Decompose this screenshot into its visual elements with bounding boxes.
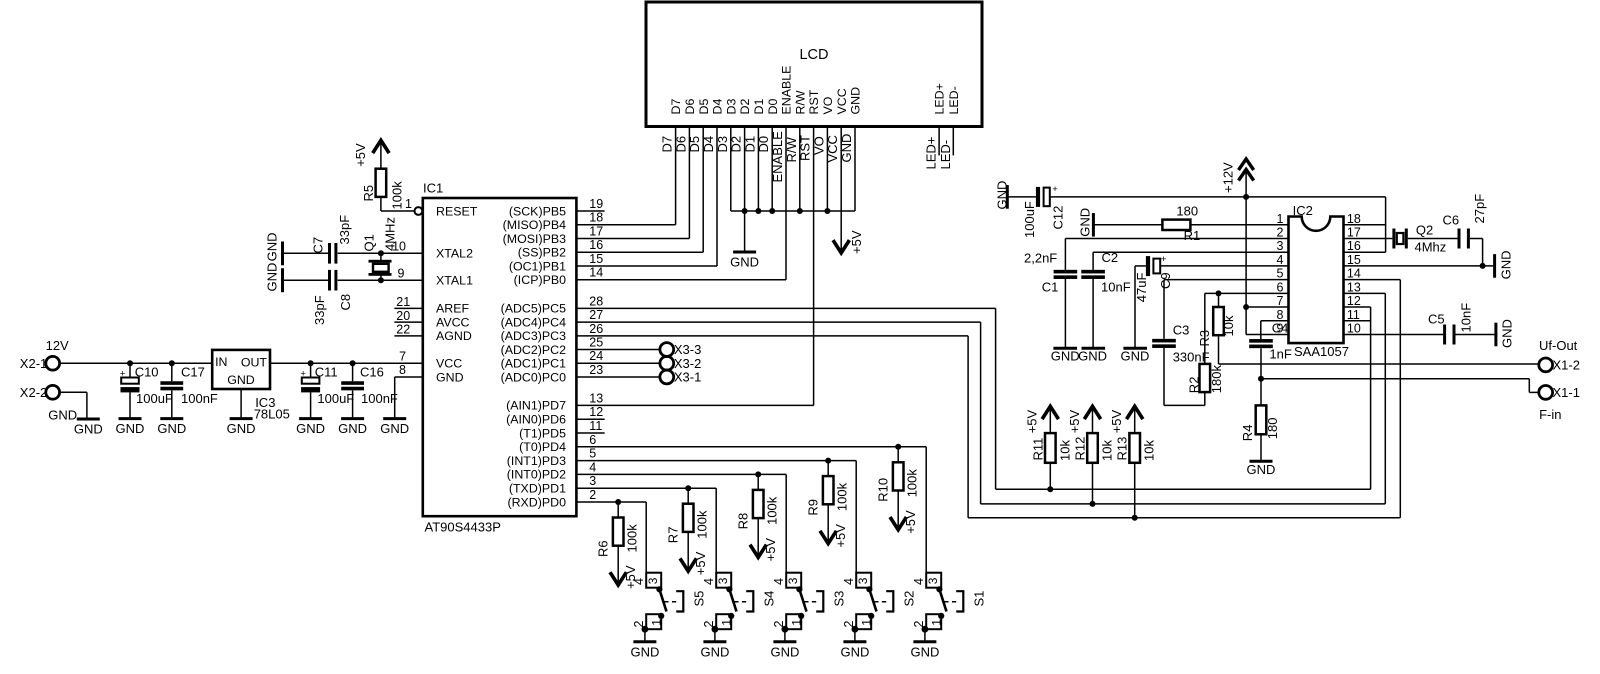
svg-text:1: 1 <box>860 619 874 626</box>
svg-text:6: 6 <box>1276 280 1283 294</box>
svg-text:GND: GND <box>700 644 729 659</box>
svg-text:GND: GND <box>910 644 939 659</box>
svg-text:C5: C5 <box>1428 312 1445 327</box>
svg-text:(ADC1)PC1: (ADC1)PC1 <box>501 357 567 371</box>
svg-text:LED+: LED+ <box>924 137 939 170</box>
svg-text:100uF: 100uF <box>1022 201 1037 238</box>
switch S4 <box>702 488 777 642</box>
svg-text:1: 1 <box>930 619 944 626</box>
svg-text:78L05: 78L05 <box>254 407 290 422</box>
connector X2-2 <box>20 385 60 400</box>
svg-text:R7: R7 <box>666 527 681 544</box>
svg-text:C9: C9 <box>1158 272 1173 289</box>
svg-text:1: 1 <box>1276 212 1283 226</box>
svg-text:R2: R2 <box>1187 377 1202 394</box>
svg-text:+5V: +5V <box>849 230 864 254</box>
wire IC1 pin 26 to IC2 pin 14 <box>576 280 1400 518</box>
svg-text:10k: 10k <box>1221 315 1236 336</box>
junction pin7 +12V <box>1243 304 1249 310</box>
svg-text:R4: R4 <box>1240 425 1255 442</box>
svg-text:(OC1)PB1: (OC1)PB1 <box>509 259 566 273</box>
svg-text:16: 16 <box>1347 239 1361 253</box>
svg-text:12: 12 <box>589 405 603 419</box>
svg-text:R/W: R/W <box>793 90 807 114</box>
svg-text:GND: GND <box>1051 349 1080 364</box>
svg-text:AREF: AREF <box>436 302 469 316</box>
svg-text:GND: GND <box>840 644 869 659</box>
svg-text:3: 3 <box>786 577 800 584</box>
svg-text:12: 12 <box>1347 294 1361 308</box>
svg-text:R6: R6 <box>596 540 611 557</box>
ground GND under bus <box>730 252 759 270</box>
svg-text:33pF: 33pF <box>312 295 327 325</box>
svg-text:GND: GND <box>74 422 103 437</box>
connector X1-2 Uf-Out <box>1539 338 1580 372</box>
svg-text:GND: GND <box>849 87 863 115</box>
svg-text:18: 18 <box>1347 212 1361 226</box>
junction C10-rail <box>127 360 133 366</box>
svg-text:D4: D4 <box>701 136 716 153</box>
wire IC1 pin 2 to switch <box>576 501 646 503</box>
svg-text:24: 24 <box>589 349 603 363</box>
resistor R9 100k pull-up <box>806 461 850 548</box>
resistor R13 10k pull-up <box>1109 406 1157 517</box>
svg-text:33pF: 33pF <box>337 215 352 245</box>
svg-text:11: 11 <box>1347 308 1360 322</box>
svg-text:LED+: LED+ <box>933 83 947 114</box>
svg-text:1: 1 <box>790 619 804 626</box>
svg-text:AGND: AGND <box>436 329 472 343</box>
junction R3 on pin 6 line <box>1216 290 1222 296</box>
ground C1 <box>1051 348 1080 363</box>
capacitor C17 100nF <box>160 363 218 418</box>
svg-text:Q1: Q1 <box>362 234 377 251</box>
svg-text:4Mhz: 4Mhz <box>1415 239 1447 254</box>
svg-text:S5: S5 <box>692 591 707 607</box>
svg-text:4: 4 <box>632 578 646 585</box>
wire IC1 pin 5 to switch <box>576 460 856 462</box>
svg-text:2,2nF: 2,2nF <box>1024 251 1057 266</box>
svg-text:5: 5 <box>589 447 596 461</box>
svg-text:RESET: RESET <box>436 204 478 218</box>
capacitor C8 33pF <box>283 270 354 325</box>
svg-text:+5V: +5V <box>1067 409 1082 433</box>
ground C17 <box>157 419 186 437</box>
svg-text:D1: D1 <box>742 136 757 153</box>
svg-text:VO: VO <box>821 96 835 114</box>
wire IC1 pin 23 to X3-1 <box>576 376 660 378</box>
wire D6 to IC1 pin 17 <box>576 127 689 239</box>
svg-text:S2: S2 <box>902 591 917 607</box>
svg-text:10k: 10k <box>1057 440 1072 461</box>
svg-text:C4: C4 <box>1272 320 1289 335</box>
pin 11 stub <box>576 432 604 434</box>
svg-text:R10: R10 <box>876 478 891 502</box>
svg-text:3: 3 <box>1276 239 1283 253</box>
svg-text:(INT0)PD2: (INT0)PD2 <box>507 468 566 482</box>
capacitor C12 100uF <box>1007 184 1065 238</box>
ground C10 <box>116 419 145 437</box>
svg-text:(T0)PD4: (T0)PD4 <box>519 440 566 454</box>
svg-text:13: 13 <box>1347 280 1361 294</box>
IC2 pin 11 stub <box>1344 320 1372 322</box>
capacitor C1 2.2nF on IC2 pin 2 <box>1024 239 1289 349</box>
svg-text:21: 21 <box>396 295 410 309</box>
svg-text:15: 15 <box>589 252 603 266</box>
svg-text:Q2: Q2 <box>1416 223 1433 238</box>
svg-text:+: + <box>300 368 306 379</box>
svg-text:C12: C12 <box>1050 206 1065 230</box>
svg-text:28: 28 <box>589 294 603 308</box>
junction D0-bus <box>769 208 775 214</box>
svg-text:D3: D3 <box>724 99 738 115</box>
svg-text:(AIN1)PD7: (AIN1)PD7 <box>506 399 566 413</box>
ground R1 (sideways) <box>1078 208 1094 237</box>
svg-text:+5V: +5V <box>693 551 708 575</box>
regulator IC3 78L05 <box>212 350 290 422</box>
switch S1 <box>912 447 987 642</box>
svg-text:+5V: +5V <box>1109 409 1124 433</box>
junction R7 <box>685 485 691 491</box>
power +5V at LCD VCC <box>833 230 864 254</box>
svg-text:IC2: IC2 <box>1293 203 1313 218</box>
resistor R1 180 on IC2 pin 1 <box>1093 203 1288 243</box>
junction R12 <box>1090 501 1096 507</box>
svg-text:100k: 100k <box>695 510 710 539</box>
svg-text:GND: GND <box>1498 251 1513 280</box>
wire X2-2 to ground <box>48 392 87 422</box>
svg-text:OUT: OUT <box>241 355 268 369</box>
junction XTAL1 <box>378 277 384 283</box>
svg-text:D5: D5 <box>697 99 711 115</box>
resistor R2 180k <box>1187 293 1289 405</box>
wire IC1 pin 4 to switch <box>576 473 786 475</box>
svg-text:R11: R11 <box>1030 438 1045 461</box>
ground IC3 <box>227 419 256 437</box>
svg-text:C11: C11 <box>315 364 338 379</box>
LCD pin labels inside <box>669 66 961 115</box>
svg-text:S4: S4 <box>762 591 777 607</box>
wire Uf-Out from R3 to X1-2 <box>1219 363 1539 365</box>
svg-text:D0: D0 <box>766 99 780 115</box>
pin 21 stub AREF <box>394 295 422 309</box>
wire VO to bus <box>811 127 827 212</box>
svg-text:D3: D3 <box>715 136 730 153</box>
capacitor C3 330nF on IC2 pin 5 <box>1152 280 1288 406</box>
svg-text:GND: GND <box>265 233 280 262</box>
wire D7 from LCD to IC1 pin 18 <box>576 127 675 225</box>
svg-text:VO: VO <box>811 136 826 155</box>
connector X1-1 F-in <box>1539 385 1580 422</box>
ground bus under LCD <box>731 210 855 212</box>
ground C5 (sideways) <box>1496 319 1515 348</box>
capacitor C7 33pF <box>283 215 353 264</box>
svg-text:+: + <box>1161 254 1167 265</box>
svg-text:27pF: 27pF <box>1472 194 1487 224</box>
svg-text:GND: GND <box>1500 319 1515 348</box>
junction VO-bus <box>824 208 830 214</box>
ground C12 (sideways) <box>995 181 1010 210</box>
junction R9 <box>825 458 831 464</box>
svg-text:17: 17 <box>1347 226 1361 240</box>
capacitor C10 100uF <box>120 363 173 418</box>
svg-text:RST: RST <box>798 135 813 161</box>
svg-text:D2: D2 <box>729 136 744 153</box>
svg-text:XTAL2: XTAL2 <box>436 247 473 261</box>
svg-text:8: 8 <box>399 363 406 377</box>
svg-text:GND: GND <box>839 134 854 163</box>
op IC1 AT90S4433P body <box>423 181 577 535</box>
svg-text:23: 23 <box>589 363 603 377</box>
IC2 right pin numbers <box>1347 212 1361 336</box>
junction R8 <box>755 471 761 477</box>
svg-text:100k: 100k <box>905 469 920 498</box>
svg-text:(SCK)PB5: (SCK)PB5 <box>509 204 566 218</box>
junction XTAL2 <box>378 250 384 256</box>
svg-text:(INT1)PD3: (INT1)PD3 <box>507 454 566 468</box>
svg-text:C8: C8 <box>338 294 353 311</box>
ground C2 <box>1078 348 1107 363</box>
wire IC1 pin 6 to switch <box>576 446 926 448</box>
svg-text:(ADC0)PC0: (ADC0)PC0 <box>501 370 567 384</box>
resistor R7 100k pull-up <box>666 488 710 575</box>
svg-text:GND: GND <box>1078 349 1107 364</box>
capacitor C16 100nF <box>341 363 398 418</box>
svg-text:10: 10 <box>392 239 406 253</box>
svg-text:22: 22 <box>396 323 410 337</box>
ground S4 <box>700 642 729 660</box>
wire RST to IC1 pin 13 <box>576 127 813 406</box>
svg-text:D1: D1 <box>752 99 766 115</box>
svg-text:D0: D0 <box>756 136 771 153</box>
switch S2 <box>842 461 917 642</box>
connector X3-2 <box>660 356 701 371</box>
svg-text:1: 1 <box>405 197 412 211</box>
svg-text:ENABLE: ENABLE <box>770 131 785 183</box>
svg-text:GND: GND <box>265 263 280 292</box>
svg-text:(ADC5)PC5: (ADC5)PC5 <box>501 302 567 316</box>
svg-text:+12V: +12V <box>1221 162 1236 193</box>
connector X2-1 12V input <box>20 338 69 371</box>
svg-text:+5V: +5V <box>1025 409 1040 433</box>
svg-text:GND: GND <box>296 421 325 436</box>
svg-text:C6: C6 <box>1443 213 1460 228</box>
wire IC1 pin 3 to switch <box>576 487 716 489</box>
svg-text:VCC: VCC <box>436 357 462 371</box>
wire XTAL1 to IC1 pin 9 <box>338 266 423 280</box>
wire D2 to bus and GND <box>729 127 745 251</box>
junction D1-bus <box>755 208 761 214</box>
IC1 right pin numbers <box>589 197 603 502</box>
svg-text:GND: GND <box>1121 349 1150 364</box>
svg-text:+5V: +5V <box>903 510 918 534</box>
svg-text:26: 26 <box>589 322 603 336</box>
wire IC1 pin 24 to X3-2 <box>576 362 660 364</box>
svg-text:S1: S1 <box>972 591 987 607</box>
junction R10 <box>895 444 901 450</box>
wire IC1 pin 25 to X3-3 <box>576 349 660 351</box>
wire XTAL2 to IC1 pin 10 <box>338 239 423 253</box>
svg-text:AVCC: AVCC <box>436 315 470 329</box>
svg-text:(T1)PD5: (T1)PD5 <box>519 426 566 440</box>
svg-text:(SS)PB2: (SS)PB2 <box>518 246 566 260</box>
ground S2 <box>840 642 869 660</box>
wire IC1 pin 27 to IC2 pin 13 <box>576 293 1385 504</box>
svg-text:R13: R13 <box>1115 437 1130 461</box>
capacitor C2 10nF on IC2 pin 3 <box>1081 250 1288 349</box>
pin 20 stub AVCC <box>394 309 422 323</box>
svg-text:100k: 100k <box>389 181 404 210</box>
ground for C8 (sideways) <box>265 263 283 293</box>
svg-text:C3: C3 <box>1173 323 1190 338</box>
switch S3 <box>772 474 847 641</box>
pin 19 stub <box>576 210 604 212</box>
wire IC2 pin 15 to ground <box>1344 265 1495 267</box>
svg-text:ENABLE: ENABLE <box>780 66 794 115</box>
svg-text:+: + <box>120 368 126 379</box>
svg-text:+5V: +5V <box>353 143 368 167</box>
junction R/W-bus <box>797 208 803 214</box>
crystal Q1 4MHz <box>362 217 398 280</box>
ground C11 <box>296 419 325 437</box>
svg-text:+5V: +5V <box>763 538 778 562</box>
junction C17-rail <box>169 360 175 366</box>
svg-text:GND: GND <box>770 644 799 659</box>
svg-text:7: 7 <box>1276 294 1283 308</box>
wire IC1 pin 28 to IC2 pin 12 <box>576 307 1370 489</box>
svg-text:3: 3 <box>856 577 870 584</box>
svg-text:IC1: IC1 <box>423 181 443 196</box>
IC1 left pin labels <box>436 204 478 384</box>
connector X3-1 <box>660 370 701 385</box>
svg-text:C16: C16 <box>360 364 384 379</box>
resistor R6 100k pull-up <box>596 502 640 589</box>
svg-text:R/W: R/W <box>784 137 799 163</box>
wire GND pin to bus <box>839 127 855 212</box>
ground S5 <box>630 642 659 660</box>
capacitor C4 1nF on IC2 pins 8-9 <box>1249 320 1292 378</box>
svg-text:X3-1: X3-1 <box>674 370 701 385</box>
svg-text:5: 5 <box>1276 267 1283 281</box>
svg-text:AT90S4433P: AT90S4433P <box>425 520 501 535</box>
svg-text:3: 3 <box>926 577 940 584</box>
junction C4 R4 F-in <box>1258 376 1264 382</box>
wire IC2 pin 7 <box>1246 306 1288 308</box>
svg-text:1: 1 <box>650 619 664 626</box>
svg-text:VCC: VCC <box>825 135 840 162</box>
svg-text:47uF: 47uF <box>1134 273 1149 303</box>
svg-text:R12: R12 <box>1073 437 1088 461</box>
svg-text:D2: D2 <box>738 99 752 115</box>
wire F-in line to X1-1 <box>1261 379 1539 393</box>
svg-text:3: 3 <box>646 577 660 584</box>
svg-text:4: 4 <box>912 578 926 585</box>
svg-text:VCC: VCC <box>835 88 849 114</box>
wire D5 to IC1 pin 16 <box>576 127 703 253</box>
wire LED- stub <box>938 127 954 170</box>
svg-text:(ADC3)PC3: (ADC3)PC3 <box>501 329 567 343</box>
svg-text:SAA1057: SAA1057 <box>1294 344 1349 359</box>
svg-text:4: 4 <box>1276 253 1283 267</box>
IC1 right pin labels <box>501 204 567 509</box>
ground S1 <box>910 642 939 660</box>
svg-text:D6: D6 <box>673 136 688 153</box>
svg-text:D4: D4 <box>711 99 725 115</box>
svg-text:GND: GND <box>1078 208 1093 237</box>
svg-text:X2-1: X2-1 <box>20 356 47 371</box>
svg-text:LCD: LCD <box>799 47 828 63</box>
svg-text:10: 10 <box>1347 321 1361 335</box>
resistor R4 180 <box>1240 379 1280 461</box>
wire 12V rail X2-1 to IC3 IN <box>60 362 213 364</box>
svg-text:R9: R9 <box>806 499 821 516</box>
svg-text:C10: C10 <box>135 364 159 379</box>
svg-text:(RXD)PD0: (RXD)PD0 <box>507 495 566 509</box>
junction C16-rail <box>350 360 356 366</box>
wire rail to IC2 pin 16 and pin 18 <box>1344 197 1386 252</box>
svg-text:15: 15 <box>1347 253 1361 267</box>
wire ENABLE to IC1 pin 14 <box>576 127 786 280</box>
svg-text:4: 4 <box>842 578 856 585</box>
svg-text:9: 9 <box>398 266 405 280</box>
svg-text:S3: S3 <box>832 591 847 607</box>
svg-text:1: 1 <box>720 619 734 626</box>
svg-text:100k: 100k <box>765 496 780 525</box>
svg-text:7: 7 <box>399 349 406 363</box>
svg-text:180k: 180k <box>1209 365 1224 394</box>
ground for C7 (sideways) <box>265 233 283 266</box>
svg-text:(MISO)PB4: (MISO)PB4 <box>503 218 566 232</box>
svg-text:F-in: F-in <box>1539 407 1561 422</box>
svg-text:4: 4 <box>702 578 716 585</box>
junction R13 <box>1132 515 1138 521</box>
svg-text:6: 6 <box>589 433 596 447</box>
svg-text:11: 11 <box>589 419 602 433</box>
reset network: resistor R5 100k <box>353 140 414 211</box>
svg-text:GND: GND <box>995 181 1010 210</box>
wire IC3 GND pin <box>240 389 242 419</box>
connector X3-3 <box>660 342 701 357</box>
svg-text:10k: 10k <box>1142 440 1157 461</box>
svg-text:100nF: 100nF <box>181 391 218 406</box>
svg-text:GND: GND <box>630 644 659 659</box>
resistor R12 10k pull-up <box>1067 406 1115 504</box>
svg-text:GND: GND <box>116 421 145 436</box>
switch S5 <box>632 502 707 642</box>
capacitor C5 10nF on IC2 pin 10 <box>1344 303 1495 345</box>
svg-text:100nF: 100nF <box>361 391 398 406</box>
svg-text:GND: GND <box>338 421 367 436</box>
svg-text:D7: D7 <box>660 136 675 153</box>
svg-text:C7: C7 <box>311 237 326 254</box>
svg-text:(AIN0)PD6: (AIN0)PD6 <box>506 413 566 427</box>
svg-text:4: 4 <box>589 460 596 474</box>
wire 5V rail IC3 OUT to IC1 VCC pin 7 <box>270 349 423 363</box>
svg-text:25: 25 <box>589 336 603 350</box>
svg-text:X1-1: X1-1 <box>1553 385 1580 400</box>
svg-text:+: + <box>1052 184 1058 195</box>
junction R6 <box>615 499 621 505</box>
svg-text:16: 16 <box>589 238 603 252</box>
wire +12V rail <box>1054 196 1386 198</box>
svg-text:3: 3 <box>716 577 730 584</box>
svg-text:100k: 100k <box>625 524 640 553</box>
svg-text:100k: 100k <box>835 482 850 511</box>
svg-text:14: 14 <box>1347 267 1361 281</box>
pin 12 stub <box>576 418 604 420</box>
svg-text:2: 2 <box>589 488 596 502</box>
ground pin15 (sideways) <box>1495 251 1514 280</box>
